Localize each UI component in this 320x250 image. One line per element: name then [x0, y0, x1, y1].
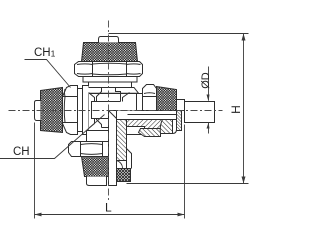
vertical centerline [108, 21, 110, 201]
body boss left edge [97, 85, 102, 102]
H extension bottom [127, 183, 249, 185]
body left profile [89, 93, 95, 129]
top neck ring2 [89, 82, 132, 88]
section: bottom arm stub bar [109, 111, 117, 186]
left ring1 [78, 89, 83, 132]
H dimension line [243, 34, 245, 184]
section: bottom arm wall strip [117, 120, 127, 161]
svg-text:H: H [229, 105, 243, 114]
section: bottom block crosshatch [117, 169, 131, 182]
top neck ring1 [83, 77, 137, 83]
section: grip ring outer [173, 120, 177, 134]
body bottom edge [89, 130, 109, 132]
section: chamber block [127, 127, 145, 135]
body boss lower-left chamfer [97, 119, 102, 128]
right collar2 [177, 100, 185, 111]
OD arrow down [207, 95, 210, 102]
bottom collar flange [87, 131, 109, 142]
svg-text:L: L [105, 201, 112, 215]
body right shoulder chamfer [123, 93, 130, 102]
right knurled nut [157, 87, 177, 111]
section: tube end line inside [128, 114, 177, 116]
L extension left [34, 123, 36, 219]
CH1 leader [25, 60, 71, 88]
left flange [83, 86, 89, 135]
section: right arm bore band [109, 111, 182, 120]
bottom hex chamfer arcs [81, 144, 103, 155]
top hex face line left [92, 62, 94, 77]
H arrow top [242, 34, 246, 41]
H arrow bottom [242, 177, 246, 184]
top tube stub [99, 37, 119, 43]
left knurled nut [41, 88, 63, 133]
section: step outline [127, 139, 132, 169]
OD dimension line lower [208, 123, 210, 134]
bottom tube stub [87, 177, 107, 186]
L arrow left [35, 213, 42, 217]
bottom hex nut [69, 142, 109, 157]
left hex face line bottom [63, 122, 78, 124]
H extension top [109, 33, 249, 35]
bottom hex face line right [102, 142, 104, 157]
OD dimension line upper [208, 67, 210, 101]
body flange top [80, 88, 139, 94]
L dimension line [35, 214, 185, 216]
bore corner chamfer redraw [109, 111, 117, 119]
body slab bottom line [92, 118, 109, 120]
body lower step line [102, 127, 109, 129]
section: bore bottom edge [117, 119, 177, 121]
L extension right [184, 125, 186, 219]
section: right arm wall hatch [117, 120, 177, 130]
svg-text:CH1: CH1 [34, 47, 56, 59]
tube inserted right [185, 102, 215, 123]
right hex chamfer arc [144, 92, 155, 95]
L arrow right [178, 213, 185, 217]
bottom hex face line left [80, 142, 82, 157]
svg-text:CH: CH [13, 146, 30, 158]
section: grip ring piece [160, 120, 172, 134]
section: notch with fillet [117, 161, 127, 169]
bottom knurled nut [82, 157, 109, 177]
dimension annotations [0, 34, 249, 219]
left hex chamfer arcs [63, 89, 66, 123]
body block [89, 94, 137, 131]
bar outline redraw [109, 111, 117, 186]
section: lower nut step [139, 129, 161, 137]
OD arrow up [207, 123, 210, 129]
left hex face line top [63, 96, 78, 98]
body slab top line [92, 101, 121, 103]
top hex nut [75, 62, 143, 77]
left hex nut [63, 86, 78, 135]
right collar1 [137, 94, 143, 111]
CH leader [0, 115, 105, 159]
horizontal centerline [9, 110, 223, 112]
top knurled nut [82, 43, 138, 62]
right hex nut [143, 85, 157, 111]
right hex face line [143, 96, 157, 98]
section: collar sleeve strip [177, 111, 182, 131]
body boss right edge [116, 85, 121, 102]
top hex chamfer arcs [77, 63, 141, 75]
left tube stub [35, 101, 41, 121]
top hex face line right [126, 62, 128, 77]
svg-text:ØD: ØD [200, 72, 212, 89]
